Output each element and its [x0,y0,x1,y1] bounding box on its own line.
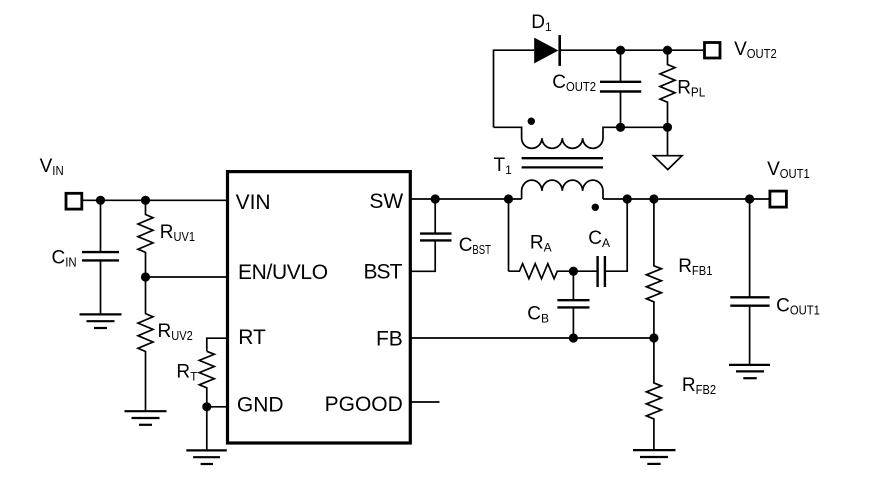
transformer T1 secondary winding [494,127,668,148]
ground (GND pin) [186,450,227,464]
junction CB/FB [569,333,578,342]
capacitor CIN [82,200,119,314]
wire SW rail right segment [603,198,769,200]
svg-text:RFB1: RFB1 [678,256,712,278]
svg-text:VOUT1: VOUT1 [767,159,810,181]
junction SW/CBST [431,194,440,203]
capacitor CB [557,271,589,338]
svg-text:VOUT2: VOUT2 [734,39,777,61]
terminal VOUT1 [770,191,787,207]
junction RUV1/RUV2/EN [141,272,150,281]
junction winding/CA [623,194,632,203]
junction COUT1 top [745,194,754,203]
capacitor CA [573,199,627,287]
svg-text:COUT1: COUT1 [776,295,820,317]
svg-text:T1: T1 [494,155,513,177]
phase dot secondary [528,118,535,125]
diode D1 [534,35,560,66]
svg-text:RT: RT [238,326,266,349]
transformer T1 primary winding [522,180,603,199]
resistor RUV1 [138,200,153,277]
junction COUT2 top [616,46,625,55]
resistor RPL [660,50,675,127]
ground (RUV2) [125,411,167,425]
svg-text:RUV2: RUV2 [158,321,193,343]
svg-text:FB: FB [376,327,403,350]
svg-text:D1: D1 [531,12,552,34]
junction RPL bottom [663,123,672,132]
junction SW/RA [504,194,513,203]
junction COUT2 bottom [616,123,625,132]
svg-text:VIN: VIN [236,191,271,214]
capacitor CBST [410,199,451,271]
wire SW to RA [508,199,510,271]
resistor RT [199,351,214,407]
svg-text:CB: CB [527,304,549,326]
wire GND to ground [206,407,208,451]
svg-text:RUV1: RUV1 [160,222,195,244]
wire SW rail left segment [410,198,521,200]
junction RT/GND [202,402,211,411]
junction FB/RFB [649,333,658,342]
svg-text:CIN: CIN [52,247,77,269]
junction VIN/CIN [96,196,105,205]
capacitor COUT2 [600,50,641,127]
svg-text:RFB2: RFB2 [682,375,716,397]
junction VIN/RUV1 [141,196,150,205]
svg-text:VIN: VIN [40,156,64,178]
svg-text:RPL: RPL [677,77,705,99]
wire GND stub [207,406,228,408]
transformer T1 core [522,158,603,167]
ground (RFB2) [633,450,676,464]
capacitor COUT1 [730,199,769,365]
terminal VIN [66,193,82,209]
junction RPL top [663,46,672,55]
ground (VOUT2 return, triangle) [654,156,683,170]
resistor RUV2 [138,277,153,411]
svg-text:CA: CA [588,228,610,250]
svg-text:EN/UVLO: EN/UVLO [238,261,328,284]
svg-text:SW: SW [369,190,403,213]
svg-text:CBST: CBST [459,235,491,257]
junction RFB1 top [649,194,658,203]
phase dot primary [592,204,599,211]
resistor RFB1 [646,199,661,338]
resistor RFB2 [646,338,661,450]
wire VOUT2 rail [560,49,703,51]
wire EN/UVLO [146,276,228,278]
wire RPL to ground [667,127,669,155]
svg-text:RT: RT [176,361,198,383]
ground (COUT1) [729,365,770,378]
wire D1 anode [494,50,535,127]
svg-text:COUT2: COUT2 [552,72,596,94]
svg-text:BST: BST [363,260,402,283]
IC U1 (buck regulator) [228,172,411,443]
terminal VOUT2 [705,43,721,59]
svg-text:RA: RA [530,232,552,254]
svg-text:PGOOD: PGOOD [325,393,403,416]
wire FB rail [410,337,654,339]
wire PGOOD stub [410,401,439,403]
resistor RA [509,264,574,279]
junction RA/CA/CB [569,267,578,276]
wire VIN rail [83,199,228,201]
svg-text:GND: GND [237,393,284,416]
ground (CIN) [80,314,122,328]
wire RT stub [207,338,228,351]
